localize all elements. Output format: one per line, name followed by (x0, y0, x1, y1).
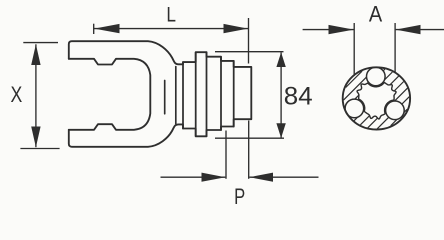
svg-text:84: 84 (284, 83, 313, 111)
svg-text:P: P (234, 184, 245, 206)
svg-text:A: A (369, 2, 383, 27)
svg-text:X: X (11, 82, 23, 107)
svg-text:L: L (166, 4, 176, 27)
